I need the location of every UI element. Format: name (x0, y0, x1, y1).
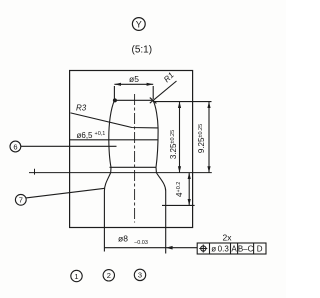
dimension diameter 5: left arrow (114, 83, 121, 86)
svg-text:7: 7 (19, 196, 23, 205)
svg-text:ø5: ø5 (129, 74, 139, 84)
balloon 2 (103, 270, 114, 281)
svg-text:4+0.2: 4+0.2 (175, 182, 184, 197)
svg-text:ø8: ø8 (118, 234, 128, 244)
svg-text:2x: 2x (223, 233, 233, 243)
balloon 7 leader (26, 188, 105, 198)
svg-text:+0,1: +0,1 (95, 131, 106, 137)
dimension diameter 6,5 leader line (70, 139, 158, 141)
dimension 3.25 label (169, 130, 178, 159)
svg-text:R3: R3 (76, 104, 87, 113)
svg-text:ø 0.3: ø 0.3 (211, 245, 229, 254)
svg-text:R1: R1 (162, 71, 176, 85)
reference line end tick (34, 169, 36, 175)
svg-text:A: A (231, 245, 237, 254)
part outline (punch tip profile) (104, 100, 165, 227)
dimension 3.25 arrows (178, 102, 181, 173)
svg-text:(5:1): (5:1) (132, 45, 153, 56)
dimension diameter 5: dim line (114, 83, 153, 85)
svg-text:−0.03: −0.03 (134, 240, 148, 246)
detail view Y balloon (132, 18, 145, 31)
svg-text:D: D (257, 245, 263, 254)
dimension 9.25 dim line (208, 102, 210, 173)
long reference line through part (29, 172, 212, 174)
dimension diameter 5: extension lines (114, 86, 153, 99)
dimension diameter 8 extension lines (104, 228, 165, 254)
svg-text:9.25±0.25: 9.25±0.25 (197, 124, 206, 153)
balloon 6 leader (21, 145, 117, 147)
balloon 1 (71, 270, 82, 281)
dimension 4 bottom reference line (162, 204, 195, 206)
dimension diameter 5: right arrow (147, 83, 154, 86)
part centerline (134, 94, 136, 223)
radius R1 leader (150, 81, 177, 103)
position tolerance symbol (199, 245, 207, 253)
dimension diameter 8 arrow (166, 246, 173, 250)
svg-text:6: 6 (13, 142, 17, 151)
dimension 4 arrows (188, 173, 191, 206)
svg-text:3.25±0.25: 3.25±0.25 (169, 130, 178, 159)
dimension 4 label (175, 182, 184, 197)
svg-text:ø6,5: ø6,5 (77, 131, 94, 140)
dimension 9.25 arrows (207, 102, 210, 173)
dimension 4 dim line (188, 173, 190, 206)
svg-text:Y: Y (136, 19, 142, 29)
svg-text:1: 1 (74, 272, 78, 281)
feature control frame (197, 243, 266, 254)
svg-text:3: 3 (138, 271, 142, 280)
svg-text:B–C: B–C (238, 245, 254, 254)
detail view border frame (70, 71, 193, 228)
svg-text:2: 2 (107, 271, 111, 280)
balloon 7 (15, 194, 26, 205)
top extension line right (153, 101, 212, 103)
balloon 3 (134, 269, 145, 280)
balloon 6 (10, 141, 21, 152)
dimension diameter 8 dim line and FCF leader (104, 247, 197, 249)
dimension 9.25 label (197, 124, 206, 153)
part step line (110, 166, 157, 168)
corner dot left (113, 98, 117, 102)
radius R3 leader (71, 113, 159, 128)
dimension 3.25 dim line (179, 102, 181, 173)
